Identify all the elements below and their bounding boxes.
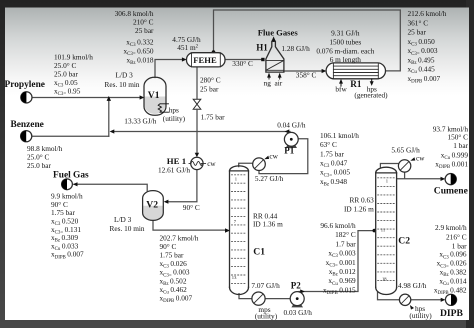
label C1 condenser duty <box>255 174 284 183</box>
heat exchanger FEHE <box>187 53 226 67</box>
svg-text:216° C: 216° C <box>446 232 467 241</box>
cw arrow C2 condenser <box>410 157 415 161</box>
svg-text:1.7 bar: 1.7 bar <box>335 239 356 248</box>
svg-text:P2: P2 <box>291 281 301 291</box>
svg-text:451 m2: 451 m2 <box>177 43 198 52</box>
C2 reboiler hps <box>399 294 410 305</box>
svg-text:(utility): (utility) <box>255 311 278 320</box>
svg-text:18: 18 <box>382 277 387 282</box>
wire FEHE hot outlet to valve <box>196 67 198 99</box>
stream data benzene feed <box>27 144 63 170</box>
wire benzene recycle from P1 <box>112 131 290 133</box>
wire HE1 to V2 <box>168 170 197 202</box>
svg-text:H1: H1 <box>256 43 268 53</box>
svg-text:5.27 GJ/h: 5.27 GJ/h <box>255 174 284 183</box>
hps arrow C2 reboiler <box>410 305 414 310</box>
pump P1 <box>284 132 298 148</box>
svg-text:25.0 bar: 25.0 bar <box>27 161 51 170</box>
wire propylene feed to V1 <box>32 97 141 99</box>
svg-text:V1: V1 <box>148 90 160 101</box>
label mps <box>258 305 270 314</box>
vessel V1 <box>144 77 166 115</box>
wire H1 to R1 <box>284 70 322 72</box>
svg-text:96.6 kmol/h: 96.6 kmol/h <box>320 221 356 230</box>
C2 condenser <box>398 160 410 172</box>
label C1 specs <box>253 212 283 229</box>
stream symbol Benzene feed <box>21 131 32 142</box>
stream symbol DIPB product <box>445 294 456 305</box>
wire C2 overhead to condenser <box>380 164 398 168</box>
label hps utility C2 <box>409 311 432 320</box>
svg-text:V2: V2 <box>146 200 158 211</box>
svg-text:cw: cw <box>207 159 216 168</box>
C1 reboiler mps <box>252 292 265 305</box>
wire R1 effluent top recycle to FEHE hot side <box>214 10 401 71</box>
svg-text:Benzene: Benzene <box>11 120 44 130</box>
svg-text:25 bar: 25 bar <box>408 28 427 37</box>
svg-text:212.6 kmol/h: 212.6 kmol/h <box>408 9 447 18</box>
wire P2 discharge to C2 feed <box>299 231 373 292</box>
svg-text:330° C: 330° C <box>232 59 253 68</box>
svg-text:9.31 GJ/h: 9.31 GJ/h <box>331 28 360 37</box>
label V1 duty <box>124 116 156 125</box>
C2 tray numbers <box>381 179 389 282</box>
stream data R1 effluent 212.6 <box>408 9 447 84</box>
svg-text:0.076 m-diam. each: 0.076 m-diam. each <box>316 46 374 55</box>
label FEHE outlet temp <box>200 76 221 94</box>
distillation column C2 <box>376 167 397 294</box>
V1 hps heating coil <box>158 104 168 112</box>
label valve outlet pressure <box>201 112 225 121</box>
svg-text:HE 1: HE 1 <box>167 156 186 166</box>
label C2 specs <box>344 196 374 214</box>
svg-text:358° C: 358° C <box>296 71 317 80</box>
wire C1 bottoms to reboiler <box>239 294 252 299</box>
label V1 L/D <box>105 71 140 90</box>
svg-text:ng air: ng air <box>264 78 283 87</box>
wire condenser to P1 <box>259 139 308 174</box>
svg-text:1 bar: 1 bar <box>453 141 468 150</box>
label cw HE1 <box>207 159 216 168</box>
stream symbol Cumene product <box>445 174 456 185</box>
svg-text:361° C: 361° C <box>408 18 429 27</box>
svg-text:(utility): (utility) <box>409 311 432 320</box>
wire merge riser <box>108 98 110 136</box>
wire fuel gas off V2 top <box>74 184 147 191</box>
stream data propylene feed <box>54 52 93 97</box>
stream data V2 bottoms 202.7 <box>160 233 199 304</box>
svg-text:Flue Gases: Flue Gases <box>258 27 299 37</box>
reactor R1 <box>326 63 385 79</box>
svg-text:L/D 3: L/D 3 <box>114 215 132 224</box>
svg-text:Fuel Gas: Fuel Gas <box>53 171 89 181</box>
vessel V2 <box>143 191 164 221</box>
label bfw <box>335 84 347 93</box>
svg-text:90° C: 90° C <box>183 203 200 212</box>
label hps generated <box>367 84 377 93</box>
svg-text:Res. 10 min: Res. 10 min <box>105 80 140 89</box>
heat exchanger HE1 <box>189 157 206 169</box>
stream symbol Fuel Gas product <box>62 179 73 190</box>
wire reboiler to DIPB product <box>411 299 442 301</box>
label generated <box>354 91 388 100</box>
svg-text:0.03 GJ/h: 0.03 GJ/h <box>284 308 313 317</box>
svg-text:6 m length: 6 m length <box>330 55 362 64</box>
label 358C <box>296 71 317 80</box>
svg-text:13.33 GJ/h: 13.33 GJ/h <box>124 116 156 125</box>
label V1 utility <box>163 114 186 123</box>
svg-text:63° C: 63° C <box>320 140 337 149</box>
svg-text:11: 11 <box>381 228 386 233</box>
wire benzene feed <box>32 135 109 137</box>
svg-text:cw: cw <box>269 152 278 161</box>
wire FEHE to H1 <box>225 59 262 61</box>
label P1 duty <box>277 120 306 129</box>
ng air burner arrows <box>269 78 280 79</box>
svg-text:106.1 kmol/h: 106.1 kmol/h <box>320 131 359 140</box>
stream data DIPB product 2.9 <box>434 223 467 296</box>
label cw C1 <box>269 152 278 161</box>
wire valve to HE1 <box>196 109 198 153</box>
svg-text:(generated): (generated) <box>354 91 388 100</box>
svg-text:Res. 10 min: Res. 10 min <box>110 224 145 233</box>
svg-text:L/D 3: L/D 3 <box>116 71 134 80</box>
label H1 duty <box>281 44 310 53</box>
label C2 reboiler duty <box>398 281 427 290</box>
svg-text:RR 0.63: RR 0.63 <box>349 196 374 205</box>
svg-text:C2: C2 <box>398 235 410 246</box>
wire reboiler to P2 <box>265 298 290 300</box>
svg-text:cw: cw <box>416 153 425 162</box>
pump P2 <box>290 292 304 308</box>
svg-text:(utility): (utility) <box>163 114 186 123</box>
bfw arrow <box>339 79 343 86</box>
stream data fuel gas <box>51 191 84 260</box>
stream data V1 outlet 306.8 <box>115 9 154 66</box>
svg-text:Cumene: Cumene <box>434 186 469 197</box>
wire C2 bottoms to reboiler <box>378 292 400 300</box>
wire C1 overhead to condenser <box>239 163 253 166</box>
furnace H1 <box>266 41 284 72</box>
label HE1 duty <box>158 166 190 175</box>
C1 tray numbers <box>232 177 238 281</box>
svg-text:bfw: bfw <box>335 84 347 93</box>
label hps C2 <box>415 304 425 313</box>
wire V1 overhead to FEHE <box>155 60 183 78</box>
svg-text:0.04 GJ/h: 0.04 GJ/h <box>277 120 306 129</box>
label cw C2 <box>416 153 425 162</box>
label C2 condenser duty <box>391 145 420 154</box>
svg-text:182° C: 182° C <box>335 230 356 239</box>
svg-text:P1: P1 <box>284 146 294 156</box>
svg-text:7.07 GJ/h: 7.07 GJ/h <box>251 281 280 290</box>
stream symbol Propylene feed <box>21 92 32 103</box>
label P2 duty <box>284 308 313 317</box>
wire V2 bottoms to C1 feed <box>153 221 226 231</box>
flue gas arrow <box>272 36 276 41</box>
valve <box>193 99 201 109</box>
svg-text:FEHE: FEHE <box>193 55 217 65</box>
stream data cumene product <box>433 124 469 170</box>
svg-text:DIPB: DIPB <box>440 308 464 319</box>
label FEHE duty <box>172 35 201 44</box>
wire condenser to cumene product <box>397 172 442 179</box>
hps generated arrow <box>370 79 374 86</box>
svg-text:25 bar: 25 bar <box>200 84 219 93</box>
label C1 reboiler duty <box>251 281 280 290</box>
label mps utility <box>255 311 278 320</box>
svg-text:ID 1.26 m: ID 1.26 m <box>344 204 374 213</box>
svg-text:R1: R1 <box>350 79 362 89</box>
svg-text:25 bar: 25 bar <box>135 26 154 35</box>
svg-text:280° C: 280° C <box>200 76 221 85</box>
label 330C <box>232 59 253 68</box>
label V2 L/D <box>110 215 145 233</box>
svg-text:4.98 GJ/h: 4.98 GJ/h <box>398 281 427 290</box>
svg-text:1.75 bar: 1.75 bar <box>201 112 225 121</box>
label ng air <box>264 78 283 87</box>
distillation column C1 <box>230 166 249 295</box>
svg-text:1.75 bar: 1.75 bar <box>320 149 344 158</box>
svg-text:1500 tubes: 1500 tubes <box>329 37 361 46</box>
svg-text:12.61 GJ/h: 12.61 GJ/h <box>158 166 190 175</box>
svg-text:13: 13 <box>232 275 237 280</box>
svg-text:2.9 kmol/h: 2.9 kmol/h <box>435 223 467 232</box>
C1 feed arrow <box>225 228 230 232</box>
svg-text:Propylene: Propylene <box>5 80 45 90</box>
C1 condenser <box>253 158 266 171</box>
cw arrow C1 condenser <box>264 156 269 160</box>
label R1 specs <box>316 28 374 64</box>
label V1 hps utility <box>169 106 179 115</box>
svg-text:C1: C1 <box>253 247 265 258</box>
svg-text:ID 1.36 m: ID 1.36 m <box>253 220 283 229</box>
label V2 inlet temp <box>183 203 200 212</box>
label FEHE area <box>177 43 198 52</box>
svg-text:1.28 GJ/h: 1.28 GJ/h <box>281 44 310 53</box>
stream data C1 distillate 106.1 <box>320 131 359 188</box>
stream data C1 bottoms 96.6 <box>320 221 356 296</box>
